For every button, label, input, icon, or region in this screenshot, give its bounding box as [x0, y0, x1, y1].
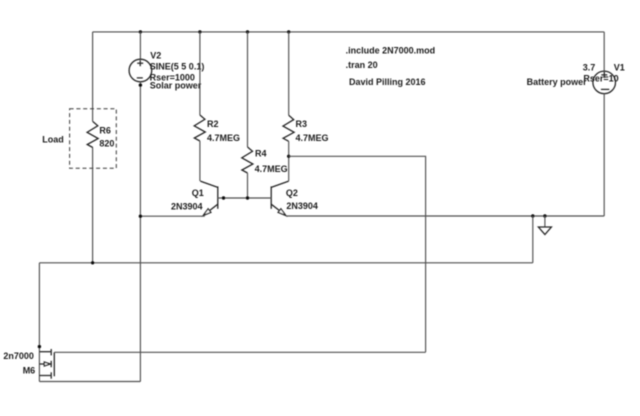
svg-text:820: 820 — [99, 138, 114, 148]
load box dashed — [70, 109, 117, 169]
wire V1 top lead — [603, 32, 605, 71]
node R3 output junction — [287, 155, 290, 158]
wire R3 bottom lead — [288, 141, 290, 181]
svg-text:David Pilling 2016: David Pilling 2016 — [349, 77, 426, 87]
svg-text:2N3904: 2N3904 — [286, 201, 318, 211]
svg-text:M6: M6 — [23, 365, 36, 375]
wire R2 bottom lead — [199, 141, 201, 181]
svg-text:.tran 20: .tran 20 — [346, 60, 378, 70]
mosfet M6 — [39, 349, 54, 379]
wire V1 bottom lead — [603, 94, 605, 216]
node base R4 junction — [246, 196, 249, 199]
svg-text:R4: R4 — [255, 149, 267, 159]
svg-text:V2: V2 — [150, 51, 161, 61]
wire M6 source rail — [39, 381, 140, 383]
node ground symbol junction — [543, 214, 546, 217]
resistor R3 — [283, 115, 294, 141]
wire R3 top lead — [288, 32, 290, 115]
wire V2 top lead — [139, 32, 141, 59]
svg-text:Solar power: Solar power — [150, 80, 202, 90]
wire R4 top lead — [247, 32, 249, 147]
node emitter V2 junction — [139, 215, 142, 218]
svg-text:SINE(5 5 0.1): SINE(5 5 0.1) — [150, 61, 205, 71]
wire R4 bottom lead — [247, 173, 249, 198]
node top R3 junction — [287, 30, 290, 33]
svg-text:Battery power: Battery power — [527, 77, 588, 87]
wire M6 gate to comparator — [54, 351, 425, 353]
svg-text:V1: V1 — [614, 62, 625, 72]
node top R2 junction — [198, 30, 201, 33]
node M6 drain junction — [38, 345, 41, 348]
wire Q2 emitter to battery — [286, 215, 604, 217]
transistor Q2 — [271, 181, 289, 215]
voltage source V2 — [129, 59, 152, 82]
node top V2 junction — [139, 30, 142, 33]
svg-text:4.7MEG: 4.7MEG — [255, 164, 288, 174]
wire R2 top lead — [199, 32, 201, 115]
voltage source V1 — [593, 71, 616, 94]
wire ground stub — [544, 216, 546, 227]
wire left branch vertical — [92, 32, 94, 122]
wire top rail — [93, 31, 605, 33]
svg-text:R2: R2 — [207, 119, 219, 129]
wire Q1 emitter to V2 — [140, 215, 204, 217]
svg-text:Q1: Q1 — [192, 188, 204, 198]
transistor Q1 — [200, 181, 218, 215]
svg-text:4.7MEG: 4.7MEG — [296, 133, 329, 143]
svg-text:Rser=10: Rser=10 — [583, 74, 618, 84]
svg-text:2N3904: 2N3904 — [171, 202, 203, 212]
wire comparator output to M6 gate — [289, 156, 426, 352]
node V2 minus terminal — [139, 83, 142, 86]
svg-text:3.7: 3.7 — [583, 62, 596, 72]
svg-text:R6: R6 — [99, 126, 111, 136]
node load bottom junction — [91, 261, 94, 264]
wire base rail — [218, 197, 271, 199]
svg-text:Q2: Q2 — [286, 188, 298, 198]
wire left branch below R6 — [92, 148, 94, 263]
wire bottom rail — [39, 262, 532, 264]
wire down from emitter rail — [532, 216, 534, 263]
svg-text:Load: Load — [42, 134, 64, 144]
resistor R6 — [87, 122, 98, 148]
node top R4 junction — [246, 30, 249, 33]
node base left junction — [222, 196, 225, 199]
wire V2 bottom long vertical — [139, 82, 141, 382]
wire left drop to M6 — [38, 263, 40, 382]
node ground branch junction — [531, 214, 534, 217]
resistor R4 — [242, 147, 253, 173]
svg-text:4.7MEG: 4.7MEG — [207, 133, 240, 143]
ground — [538, 227, 551, 235]
svg-text:2n7000: 2n7000 — [3, 351, 34, 361]
svg-text:.include 2N7000.mod: .include 2N7000.mod — [346, 46, 436, 56]
resistor R2 — [194, 115, 205, 141]
svg-text:R3: R3 — [296, 119, 308, 129]
